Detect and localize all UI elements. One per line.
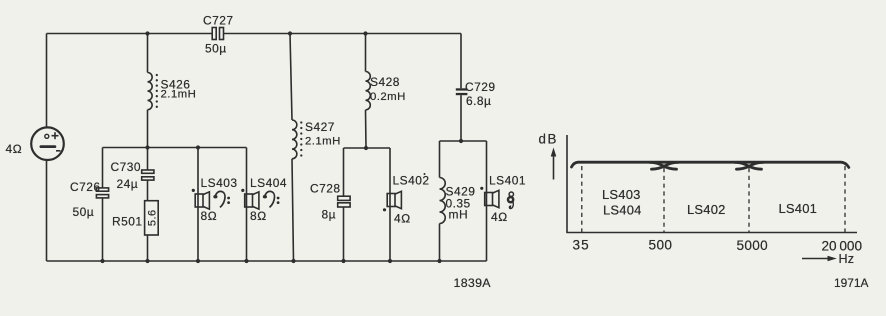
node: bracket / S428: [364, 146, 368, 150]
node: top rail / S428: [363, 31, 367, 35]
node: bottom rail / LS404: [244, 259, 248, 263]
wire: S426 branch upper: [147, 34, 149, 73]
capacitor C727: [203, 14, 234, 56]
wire: left rail: [46, 34, 48, 128]
wire: S428 to bracket: [365, 110, 368, 148]
source G1 (4 ohm): [31, 127, 64, 160]
y-axis: [566, 135, 568, 233]
loudspeaker LS403 8ohm: [192, 176, 238, 223]
wire: R501 to bottom rail: [147, 235, 149, 261]
wire: top rail (right of C727): [224, 33, 461, 35]
svg-text:35: 35: [573, 238, 590, 253]
svg-text:C728: C728: [310, 182, 341, 196]
svg-text:50µ: 50µ: [73, 205, 95, 219]
inductor S427 2.1mH: [292, 120, 341, 159]
svg-text:R501: R501: [112, 215, 143, 229]
wire: S427 to bottom rail: [292, 159, 294, 261]
node: bottom rail / LS403: [196, 259, 200, 263]
inductor S426 2.1mH: [148, 73, 197, 110]
dashed marker 500: [663, 168, 665, 233]
wire: C729 branch: [460, 34, 462, 89]
svg-text:1971A: 1971A: [834, 276, 868, 290]
wire: bracket S429/LS401: [440, 140, 487, 142]
node: bottom rail / R501: [145, 259, 149, 263]
wire: S429 branch upper: [439, 141, 441, 178]
capacitor C730 24u: [111, 160, 154, 191]
svg-text:4Ω: 4Ω: [6, 142, 23, 156]
svg-text:LS403: LS403: [602, 187, 641, 202]
wire: S429 to bottom rail: [439, 224, 441, 262]
wire: mid rail: [103, 147, 247, 149]
dashed marker 20000: [844, 166, 846, 233]
dashed marker 35: [581, 166, 583, 233]
node: bottom rail / C726: [100, 259, 104, 263]
svg-text:8µ: 8µ: [322, 208, 337, 222]
node: mid rail / LS403: [196, 145, 200, 149]
loudspeaker LS404 8ohm: [241, 176, 287, 223]
node: bottom rail / S429: [437, 259, 441, 263]
node: bottom rail / C728: [341, 259, 345, 263]
svg-text:C726: C726: [70, 180, 101, 194]
wire: top rail (left of C727): [47, 33, 213, 35]
wire: C726 branch: [102, 148, 104, 188]
capacitor C729 6.8u: [456, 80, 496, 108]
wire: LS402 branch: [389, 148, 391, 261]
svg-text:500: 500: [649, 238, 673, 253]
svg-text:C730: C730: [111, 160, 142, 174]
svg-text:2.1mH: 2.1mH: [161, 89, 197, 101]
loudspeaker LS402 4ohm: [383, 173, 430, 226]
svg-text:LS402: LS402: [393, 174, 430, 188]
x-axis baseline: [566, 232, 857, 234]
svg-text:dB: dB: [539, 132, 558, 147]
svg-text:C729: C729: [465, 80, 496, 94]
svg-text:5.6: 5.6: [147, 209, 159, 226]
node: mid rail / C730: [145, 145, 149, 149]
svg-text:8Ω: 8Ω: [250, 209, 267, 223]
svg-text:4Ω: 4Ω: [394, 212, 411, 226]
capacitor C726 50u: [70, 180, 109, 219]
svg-text:8Ω: 8Ω: [201, 209, 218, 223]
treble clef at LS401: [508, 192, 514, 209]
svg-text:4Ω: 4Ω: [491, 210, 508, 224]
frequency axis arrow Hz: [802, 252, 854, 266]
node: bottom rail / LS402: [388, 259, 392, 263]
wire: LS401 branch: [486, 141, 488, 261]
svg-text:LS404: LS404: [250, 176, 287, 190]
bass clef at LS403: [213, 191, 230, 207]
loudspeaker LS401 4ohm: [480, 174, 526, 225]
dashed marker 5000: [748, 168, 750, 233]
svg-text:24µ: 24µ: [117, 177, 139, 191]
capacitor C728 8u: [310, 182, 350, 222]
svg-text:5000: 5000: [737, 238, 769, 253]
svg-text:Hz: Hz: [839, 252, 855, 266]
dB axis arrow: [551, 148, 557, 180]
response curve: [572, 162, 849, 169]
inductor S428 0.2mH: [366, 72, 406, 110]
svg-text:S428: S428: [370, 75, 400, 89]
inductor S429 0.35mH: [440, 178, 476, 224]
svg-text:0.2mH: 0.2mH: [370, 91, 406, 103]
svg-text:mH: mH: [449, 208, 469, 222]
svg-text:6.8µ: 6.8µ: [466, 94, 491, 108]
svg-text:S427: S427: [305, 120, 335, 134]
wire: LS403 branch: [197, 148, 199, 262]
wire: LS404 branch: [246, 148, 248, 262]
svg-text:LS403: LS403: [201, 176, 238, 190]
node: bracket / C729: [459, 139, 463, 143]
svg-text:2.1mH: 2.1mH: [305, 136, 341, 148]
wire: bottom rail: [47, 260, 487, 262]
svg-text:LS401: LS401: [779, 201, 818, 216]
wire: S427 branch upper: [290, 34, 292, 121]
wire: C730/R501 branch: [147, 148, 149, 171]
svg-text:LS401: LS401: [489, 174, 526, 188]
wire: S426 to mid rail: [147, 110, 149, 148]
wire: C728 branch: [343, 148, 345, 196]
node: top rail / S426: [145, 31, 149, 35]
resistor R501 5.6: [112, 201, 159, 235]
svg-text:50µ: 50µ: [205, 42, 227, 56]
svg-text:LS404: LS404: [603, 203, 642, 218]
node: top rail / S427: [288, 31, 292, 35]
svg-text:LS402: LS402: [687, 202, 726, 217]
bass clef at LS404: [263, 191, 280, 207]
svg-text:C727: C727: [203, 14, 234, 28]
wire: S428 branch upper: [365, 34, 367, 72]
node: bottom rail / S427: [291, 259, 295, 263]
wire: bracket C728/LS402: [344, 147, 391, 149]
svg-text:1839A: 1839A: [454, 276, 492, 290]
